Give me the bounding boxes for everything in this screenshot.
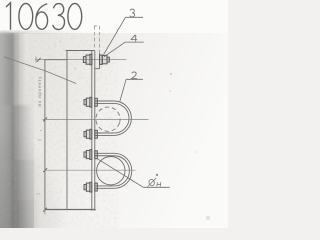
- U-bolt 2 top leg: [95, 152, 115, 154]
- callout 3 leader: [104, 17, 126, 54]
- U-bolt 2 arcs: [114, 153, 132, 188]
- gutter widening toward bottom: [0, 105, 74, 228]
- vertical plate: [91, 51, 93, 211]
- U2 bottom nut cluster: [90, 182, 92, 192]
- U1 bottom washer: [95, 130, 98, 138]
- scanned area background: [0, 33, 228, 228]
- callout 2 underline: [126, 78, 143, 80]
- long surface leader: [4, 57, 76, 84]
- callout 2 leader: [120, 79, 126, 101]
- bolt right nut: [102, 55, 107, 63]
- scan noise: [0, 33, 118, 228]
- pipe 1 centerline: [43, 118, 149, 120]
- left scan gutter shadow: [0, 33, 39, 232]
- dim tick bottom: [43, 208, 47, 212]
- paper edge shadow: [0, 30, 82, 33]
- callout digit 4: [131, 35, 137, 42]
- dim tick mid: [43, 168, 47, 172]
- U2 top washer: [95, 151, 98, 159]
- U1 bottom nut cluster: [90, 129, 92, 139]
- pipe 2: [97, 157, 125, 185]
- U2 bottom washer: [95, 183, 98, 191]
- dim tick centerline1: [43, 117, 47, 121]
- callout 4 leader: [104, 42, 125, 57]
- main bracket rectangle: [45, 51, 67, 210]
- bolt left stub: [83, 57, 86, 63]
- pipe 1 (hidden): [93, 104, 123, 134]
- bolt right washer: [100, 55, 103, 64]
- pipe 2 centerline: [45, 169, 136, 171]
- U2 top nut cluster: [90, 150, 92, 160]
- bolt right stub: [107, 57, 109, 62]
- dim line lower stub: [44, 210, 46, 215]
- bolt axis line: [35, 59, 126, 61]
- leader to pipe 2 diameter: [98, 159, 144, 188]
- callout 4 underline: [125, 41, 144, 43]
- scan specks: [59, 29, 210, 221]
- U1 top washer: [95, 98, 98, 106]
- U-bolt 1 top leg: [95, 100, 114, 102]
- dim tick top: [37, 58, 41, 62]
- part number 10630: [6, 3, 81, 30]
- callout digit 2: [132, 72, 137, 79]
- callout 3 underline: [126, 16, 144, 18]
- U-bolt 1 arcs: [114, 101, 131, 135]
- diameter symbol group: [148, 174, 161, 187]
- wall tab solid part: [99, 54, 101, 69]
- wall tab hidden (dashed): [94, 26, 96, 54]
- paper background: [0, 0, 228, 228]
- extension cross tick: [35, 57, 37, 63]
- bottom edge extended: [45, 209, 96, 211]
- bolt 3/4: left washer: [90, 54, 92, 65]
- U-bolt 1 bottom leg: [95, 132, 114, 134]
- top gusset edge: [66, 50, 95, 52]
- bolt 3/4: left head: [86, 55, 90, 64]
- U-bolt 2 bottom leg: [95, 185, 115, 187]
- gutter dark streak: [11, 33, 14, 228]
- callout digit 3: [130, 9, 135, 17]
- diameter label underline: [143, 186, 170, 188]
- U1 top nut cluster: [90, 97, 92, 107]
